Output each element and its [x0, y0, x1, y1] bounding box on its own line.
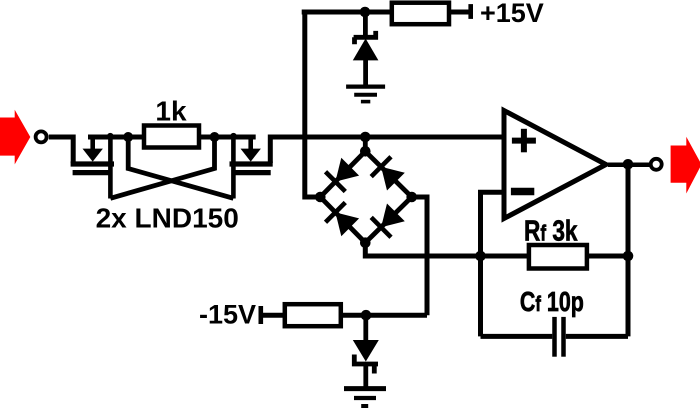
ground (bottom): [344, 386, 386, 391]
svg-text:-15V: -15V: [199, 300, 256, 330]
wire between FET sources (behind 1k): [88, 135, 256, 140]
transistor Q1 gate bar: [73, 170, 110, 175]
node bridge left: [315, 192, 326, 203]
transistor Q1 channel: [71, 161, 114, 166]
wire resistor to +15V terminal: [449, 10, 470, 15]
wire input to Q1 drain: [49, 137, 73, 163]
node bridge top: [360, 146, 371, 157]
output terminal: [651, 159, 662, 170]
transistor Q2 gate bar: [236, 170, 271, 175]
diode D3 (bottom-left arm): [335, 212, 359, 236]
node on top rail: [360, 7, 371, 18]
wire inverting input: [481, 192, 506, 336]
svg-text:Cf 10p: Cf 10p: [520, 288, 584, 318]
node feedback right: [623, 251, 634, 262]
node -15V rail: [361, 310, 372, 321]
wire -15V rail: [263, 313, 427, 318]
ground (top): [346, 85, 385, 89]
wire cross-couple gate Q1: [110, 137, 214, 198]
terminal tick -15V: [258, 306, 263, 324]
transistor Q2 channel: [230, 161, 273, 166]
node dots on source wire: [107, 133, 114, 140]
wire Q2 drain to op-amp: [270, 137, 505, 163]
zener D5 (top clamp): [363, 12, 368, 37]
diode bridge arms: [320, 151, 411, 242]
input terminal: [36, 131, 47, 142]
diode D4 (bottom-right arm): [381, 204, 405, 228]
transistor Q2 body arrow: [248, 137, 253, 150]
diode D1 (top-left arm): [335, 158, 359, 182]
node feedback left: [475, 251, 486, 262]
svg-text:1k: 1k: [155, 96, 187, 127]
svg-text:Rf 3k: Rf 3k: [524, 214, 578, 247]
wire op-amp output: [608, 163, 650, 168]
input arrow: [0, 110, 30, 165]
transistor Q1 source lead: [108, 137, 113, 199]
zener D6 (bottom clamp): [363, 315, 368, 341]
resistor R1 1k: [144, 126, 199, 148]
capacitor Cf 10p: [481, 334, 553, 339]
wire top rail: [302, 10, 392, 15]
transistor Q2 source lead: [231, 137, 236, 199]
node bridge right: [406, 192, 417, 203]
diode D2 (top-right arm): [381, 167, 405, 191]
wire cross-couple gate Q2: [128, 137, 233, 198]
output arrow: [671, 137, 700, 194]
wire output feedback drop: [626, 164, 631, 336]
resistor Rbot: [285, 304, 341, 326]
wire bridge bottom to feedback node: [365, 243, 628, 256]
op-amp U1: [504, 111, 606, 219]
wire stub to bridge top: [363, 137, 368, 151]
wire bridge right to -rail riser: [412, 197, 427, 315]
transistor Q1 body arrow: [90, 137, 95, 150]
node main wire / bridge top: [360, 132, 371, 143]
svg-text:2x LND150: 2x LND150: [96, 203, 239, 234]
node bridge bottom: [360, 237, 371, 248]
terminal tick +15V: [468, 4, 473, 19]
svg-text:+15V: +15V: [480, 0, 544, 28]
wire riser +rail to bridge left: [305, 12, 321, 197]
resistor Rtop: [392, 3, 449, 25]
node output: [623, 159, 634, 170]
resistor Rf 3k: [529, 245, 587, 269]
